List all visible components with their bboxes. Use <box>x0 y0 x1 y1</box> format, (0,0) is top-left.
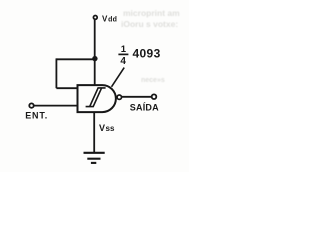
svg-text:iOoru s votxe:: iOoru s votxe: <box>121 19 178 29</box>
svg-text:1: 1 <box>121 44 127 55</box>
svg-text:4093: 4093 <box>133 46 161 60</box>
terminal Vdd <box>93 16 97 20</box>
ground symbol <box>84 153 105 163</box>
svg-text:4: 4 <box>120 56 126 67</box>
wire feedback loop: junction left <box>56 58 95 60</box>
svg-text:ENT.: ENT. <box>25 111 48 121</box>
wire feedback loop: left vertical <box>55 58 57 88</box>
wire gate output to SAÍDA terminal <box>122 96 152 98</box>
op-amp U1 gate body (1/4 4093 Schmitt NAND) <box>78 85 116 112</box>
inversion bubble at gate output <box>117 95 121 99</box>
leader line from gate to 1/4 label <box>112 68 125 87</box>
terminal ENT. <box>29 103 33 107</box>
svg-text:Vss: Vss <box>99 123 115 133</box>
wire ENT. input to gate input 2 <box>34 105 78 107</box>
hysteresis symbol stroke 2 (left diagonal + top tick) <box>90 88 106 107</box>
wire feedback loop: bottom horizontal to gate input 1 <box>56 87 78 89</box>
svg-text:SAÍDA: SAÍDA <box>130 103 159 113</box>
hysteresis symbol stroke 1 (bottom tick + right diagonal) <box>86 88 102 107</box>
svg-text:nece»s: nece»s <box>141 77 165 84</box>
node junction dot (Vdd / feedback) <box>92 56 97 61</box>
fraction bar of 1/4 <box>118 53 128 55</box>
svg-text:microprint am: microprint am <box>123 8 180 18</box>
svg-text:Vdd: Vdd <box>102 15 117 24</box>
wire Vdd vertical (terminal to gate top power pin) <box>94 20 96 85</box>
terminal SAÍDA <box>152 94 157 99</box>
wire Vss vertical (gate bottom to ground) <box>93 112 95 152</box>
